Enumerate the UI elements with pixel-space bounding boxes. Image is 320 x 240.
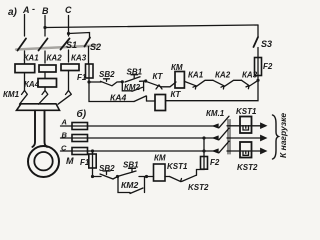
svg-text:КА1: КА1 <box>188 71 204 80</box>
wire S2 to F1 <box>88 47 90 65</box>
button SB2 <box>89 81 101 83</box>
coil KM lower box <box>154 164 166 181</box>
node KA3 junction <box>256 79 259 82</box>
wire C to F1 lower <box>92 151 94 154</box>
svg-text:С: С <box>65 5 72 15</box>
contact KM2 lower loop <box>118 177 130 193</box>
svg-text:б): б) <box>77 108 87 120</box>
contact KA4 <box>134 96 147 102</box>
wire C branch to S2 <box>69 33 90 38</box>
svg-text:КМ.1: КМ.1 <box>206 109 225 118</box>
wire B top <box>44 16 46 37</box>
contact KM.1 pole A <box>214 116 230 128</box>
contact KA2 <box>213 80 242 89</box>
brace to load <box>273 115 279 159</box>
motor feeder bar <box>17 104 60 111</box>
contact KST1 lower <box>170 177 182 182</box>
svg-text:КМ: КМ <box>154 154 166 163</box>
contact KA1 <box>193 80 213 89</box>
wire B to KA4 <box>44 72 46 79</box>
thermal KST2 element <box>243 151 249 155</box>
wire C lower <box>68 71 70 91</box>
switch S3 <box>257 25 259 36</box>
wire F1 lower down <box>92 168 94 177</box>
svg-text:КМ1: КМ1 <box>3 90 20 99</box>
button SB1 <box>125 77 140 82</box>
thermal KST1 element <box>243 126 249 130</box>
node on B <box>43 26 46 29</box>
wire KM to KA1 <box>184 81 196 85</box>
wire C mid <box>68 50 70 62</box>
svg-text:KST2: KST2 <box>237 163 258 172</box>
arrow line B <box>261 135 267 140</box>
node before SB1 lower <box>116 175 119 178</box>
heater KA1 box <box>15 64 35 73</box>
node after SB1 <box>144 79 147 82</box>
node on C <box>67 32 70 35</box>
motor M outer <box>28 146 59 177</box>
arrow line A <box>240 125 265 127</box>
svg-text:КА1: КА1 <box>24 54 40 63</box>
switch S1 pole C <box>61 39 70 50</box>
fuse F1 <box>86 64 94 78</box>
switch linkage bar S1 <box>16 46 97 50</box>
node before SB1 <box>121 80 124 83</box>
contact KM1 pole A <box>20 91 28 105</box>
contact KM.1 pole C <box>214 141 230 153</box>
contact KM2 parallel loop <box>122 82 132 91</box>
fuse B <box>72 135 88 142</box>
wire bus B to S3 <box>45 25 258 28</box>
heater KA2 box <box>39 65 56 72</box>
switch S2 <box>85 38 91 47</box>
motor M inner <box>34 152 52 170</box>
wire S3 to F2 <box>257 48 259 58</box>
thermal KST1 box <box>240 117 252 134</box>
heater KA4 box <box>38 79 57 88</box>
button SB2 lower <box>93 176 102 178</box>
wire F2 down <box>166 76 259 101</box>
node F1 lower bottom <box>91 175 94 178</box>
svg-text:S2: S2 <box>90 42 101 52</box>
coil KM box <box>175 72 184 89</box>
svg-text:А: А <box>61 118 67 127</box>
svg-text:а): а) <box>8 7 18 18</box>
motor lead left <box>32 110 47 147</box>
svg-text:В: В <box>42 6 49 16</box>
node after SB1 lower <box>145 175 148 178</box>
svg-text:КМ2: КМ2 <box>124 83 141 92</box>
line B lower <box>61 137 266 139</box>
line A lower <box>61 125 241 127</box>
svg-text:-: - <box>32 4 35 14</box>
wire A lower <box>24 73 26 91</box>
svg-text:К нагрузке: К нагрузке <box>278 113 288 158</box>
svg-text:КМ2: КМ2 <box>121 180 138 190</box>
wire C top <box>68 16 70 37</box>
contact KA3 <box>242 80 258 88</box>
button SB1 lower <box>119 171 136 176</box>
node F2 wire on line C <box>202 149 205 152</box>
node C lower junction <box>91 149 94 152</box>
svg-text:KST1: KST1 <box>236 107 257 116</box>
wire A top <box>24 15 26 37</box>
svg-text:А: А <box>22 5 30 15</box>
svg-text:F1: F1 <box>80 158 90 167</box>
switch S1 pole B <box>39 39 48 51</box>
contact KM1 pole B <box>39 91 48 105</box>
wire A mid <box>24 51 26 63</box>
wire KM to KST1 <box>165 176 170 178</box>
arrow line C <box>240 150 265 152</box>
contact KST2 lower <box>182 175 197 181</box>
contact KM1 pole C <box>58 91 71 105</box>
switch S1 pole A <box>18 39 27 51</box>
svg-text:SB2: SB2 <box>99 70 115 79</box>
svg-text:KST2: KST2 <box>188 183 209 192</box>
line C lower <box>61 150 241 152</box>
fuse F2 lower <box>201 157 208 170</box>
wire KA4 to contact <box>44 87 46 91</box>
svg-text:F1: F1 <box>77 73 87 82</box>
thermal KST2 box <box>240 142 252 158</box>
svg-text:KST1: KST1 <box>167 162 188 171</box>
svg-text:КТ: КТ <box>153 72 164 81</box>
node F2 on line B <box>202 136 205 139</box>
svg-text:КТ: КТ <box>171 90 182 99</box>
contact KM.1 pole B <box>214 128 230 140</box>
svg-text:F2: F2 <box>263 62 273 71</box>
branch KA4 wire <box>89 82 134 102</box>
svg-text:F2: F2 <box>210 158 220 167</box>
contact KT timed <box>146 81 161 87</box>
svg-text:S3: S3 <box>261 39 272 49</box>
coil KT box <box>155 95 166 111</box>
wire KST2 to F2 lower <box>197 169 205 175</box>
svg-text:КА3: КА3 <box>71 54 87 63</box>
linkage KM.1 <box>228 120 230 155</box>
svg-text:М: М <box>66 156 74 166</box>
wire F1 down <box>88 78 90 82</box>
svg-text:КА2: КА2 <box>47 54 63 63</box>
wire B mid <box>44 51 46 63</box>
svg-text:КА2: КА2 <box>215 71 231 80</box>
fuse F2 <box>255 58 262 76</box>
fuse C <box>72 148 88 155</box>
svg-text:S1: S1 <box>66 40 77 50</box>
node F1 bottom <box>87 80 90 83</box>
heater KA3 box <box>61 64 79 71</box>
fuse F1 lower <box>89 154 96 168</box>
fuse A <box>72 123 88 130</box>
